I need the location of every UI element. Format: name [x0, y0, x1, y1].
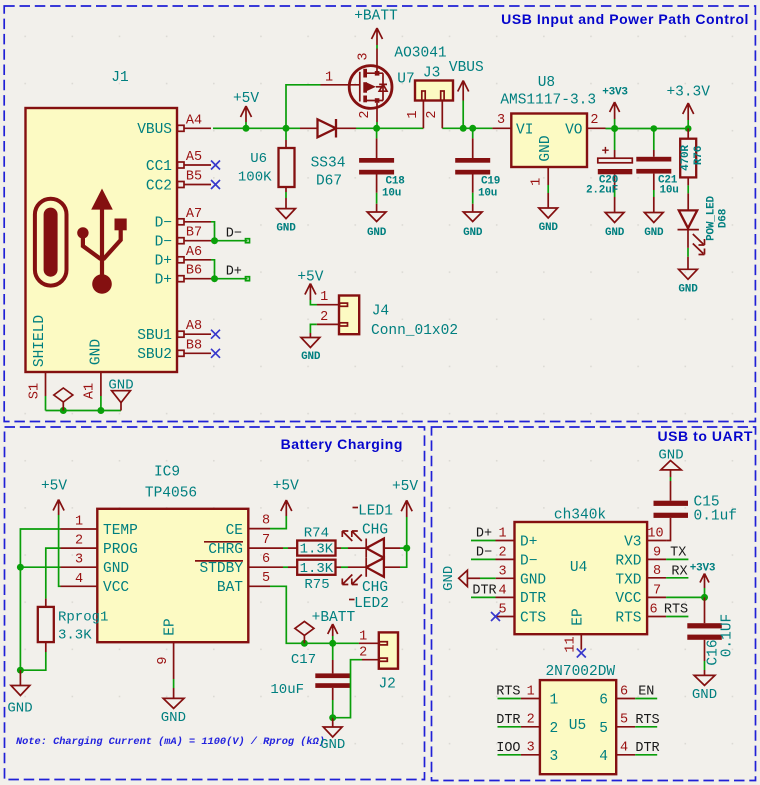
J1 pin A8 (SBU1): [178, 319, 212, 337]
svg-text:TEMP: TEMP: [103, 523, 138, 539]
sheet border: USB Input and Power Path Control: [4, 6, 755, 422]
IC9 pin 6 STDBY: [248, 552, 283, 567]
svg-text:9: 9: [653, 545, 661, 560]
svg-text:R74: R74: [304, 526, 329, 542]
svg-text:4: 4: [599, 749, 608, 765]
svg-text:10uF: 10uF: [270, 682, 304, 698]
svg-text:B7: B7: [186, 226, 202, 241]
svg-text:2: 2: [498, 545, 506, 560]
svg-text:2: 2: [550, 721, 559, 737]
no-connect X on SBU2: [211, 349, 220, 358]
IC9 pin 2 PROG: [61, 534, 98, 549]
svg-text:0.1UF: 0.1UF: [720, 614, 736, 658]
ground under J4: [301, 333, 321, 363]
svg-text:6: 6: [599, 693, 608, 709]
svg-text:BAT: BAT: [217, 580, 243, 596]
svg-text:1: 1: [320, 290, 328, 305]
svg-text:5: 5: [262, 571, 270, 586]
svg-text:2: 2: [590, 113, 598, 128]
IC9 pin 4 VCC: [61, 572, 98, 587]
connector J1 (USB-C): [26, 70, 178, 372]
LED LED2: [342, 558, 400, 585]
junction VBUS arrow: [460, 125, 467, 132]
svg-text:+BATT: +BATT: [312, 610, 356, 626]
transistor U7 AO3041 (P-MOSFET): [321, 46, 447, 129]
svg-text:S1: S1: [28, 383, 43, 399]
wire 3V3 rail: [606, 128, 689, 130]
ground under EP: [161, 698, 186, 726]
svg-text:SS34: SS34: [311, 156, 346, 172]
svg-text:VCC: VCC: [615, 591, 641, 607]
svg-text:A1: A1: [83, 383, 98, 399]
svg-text:GND: GND: [320, 737, 345, 753]
IC9 pin 1 TEMP: [61, 515, 98, 530]
ground under C18: [367, 212, 387, 239]
junction diamond: [301, 640, 308, 647]
wire pin7 to R74: [283, 547, 288, 549]
svg-text:LED1: LED1: [358, 504, 393, 520]
junction R76: [685, 125, 692, 132]
svg-text:DTR: DTR: [520, 591, 546, 607]
wire PROG drop: [46, 548, 61, 599]
svg-text:A4: A4: [186, 114, 202, 129]
svg-text:GND: GND: [89, 339, 105, 365]
svg-text:D−: D−: [155, 216, 172, 232]
wire TEMP to left rail: [20, 529, 60, 670]
IC9 pin 3 GND: [61, 553, 98, 568]
svg-text:6: 6: [649, 602, 657, 617]
power +5V left: [41, 479, 67, 516]
svg-text:GND: GND: [539, 222, 559, 234]
svg-text:TXD: TXD: [615, 572, 641, 588]
svg-text:11: 11: [564, 636, 579, 652]
svg-text:2: 2: [425, 110, 440, 118]
ground left rail: [7, 670, 32, 716]
svg-text:SBU2: SBU2: [137, 347, 172, 363]
wire LED common to +5V: [400, 517, 407, 567]
ground under C17: [320, 718, 345, 753]
wire J4 pin1: [310, 300, 317, 305]
capacitor C16: [687, 597, 735, 675]
svg-text:+5V: +5V: [392, 479, 418, 495]
wire pin6 to R75: [283, 566, 288, 568]
svg-text:1: 1: [406, 110, 421, 118]
junction Q drain rail: [373, 125, 380, 132]
capacitor C18: [359, 128, 405, 212]
wire BAT run: [270, 586, 359, 643]
no-connect X on CC1: [211, 161, 220, 170]
svg-text:U8: U8: [538, 75, 555, 91]
wire VBUS rail: [213, 127, 492, 129]
wire gate riser: [286, 85, 321, 129]
svg-text:5: 5: [620, 713, 628, 728]
svg-text:GND: GND: [367, 227, 387, 239]
svg-text:3: 3: [527, 741, 535, 756]
svg-text:4: 4: [75, 572, 83, 587]
connector J3: [406, 66, 453, 129]
sheet border: Battery Charging: [5, 427, 425, 780]
svg-text:TP4056: TP4056: [145, 486, 197, 502]
junction VCC C16: [701, 594, 708, 601]
svg-text:J3: J3: [423, 66, 440, 82]
svg-text:A6: A6: [186, 245, 202, 260]
svg-text:D+: D+: [520, 534, 537, 550]
svg-text:100K: 100K: [238, 170, 272, 186]
svg-text:1: 1: [75, 515, 83, 530]
svg-text:RTS: RTS: [615, 610, 641, 626]
svg-text:R75: R75: [304, 577, 329, 593]
U5 pin 6 / EN: [616, 684, 657, 699]
no-connect X on CC2: [211, 180, 220, 189]
svg-text:1: 1: [498, 526, 506, 541]
power +5V at J4: [297, 270, 323, 301]
svg-text:1: 1: [325, 71, 333, 86]
svg-text:3: 3: [497, 113, 505, 128]
svg-text:6: 6: [262, 552, 270, 567]
J1 pin A7 (D-): [178, 207, 212, 225]
svg-text:2: 2: [358, 110, 373, 118]
svg-text:J4: J4: [372, 304, 389, 320]
svg-text:VI: VI: [516, 122, 533, 138]
svg-text:SBU1: SBU1: [137, 328, 172, 344]
junction bottom left: [17, 667, 24, 674]
svg-text:C17: C17: [291, 652, 316, 668]
no-connect X on SBU1: [211, 330, 220, 339]
svg-text:TX: TX: [670, 546, 686, 561]
J1 pin A4 (VBUS): [178, 114, 212, 132]
svg-text:VBUS: VBUS: [137, 122, 172, 138]
svg-text:9: 9: [156, 656, 171, 664]
svg-text:EP: EP: [163, 618, 179, 635]
resistor R76: [680, 129, 705, 211]
J1 USB logo glyph: [35, 189, 127, 294]
power +3V3: [602, 87, 628, 129]
svg-text:2: 2: [527, 713, 535, 728]
U4 pin 2 D-: [471, 545, 515, 560]
svg-text:+3.3V: +3.3V: [666, 85, 710, 101]
svg-text:CHG: CHG: [362, 580, 388, 596]
capacitor C19: [455, 128, 500, 212]
svg-text:RXD: RXD: [615, 553, 641, 569]
ground under C21: [644, 213, 664, 240]
svg-text:CE: CE: [226, 523, 243, 539]
svg-text:470R: 470R: [680, 145, 692, 171]
J1 pin B7 (D-): [178, 226, 212, 244]
svg-text:1: 1: [527, 684, 535, 699]
svg-text:GND: GND: [301, 351, 321, 363]
svg-text:CC1: CC1: [146, 159, 172, 175]
svg-text:USB to UART: USB to UART: [658, 428, 754, 444]
svg-text:+5V: +5V: [233, 91, 259, 107]
svg-text:RTS: RTS: [664, 603, 688, 618]
connector J2: [359, 629, 398, 692]
IC U5 2N7002DW: [540, 664, 616, 774]
ground under C20: [605, 213, 625, 240]
J1 pin B8 (SBU2): [178, 338, 212, 356]
wire J4 pin2 to gnd: [310, 324, 316, 333]
svg-text:GND: GND: [520, 572, 546, 588]
svg-text:7: 7: [262, 533, 270, 548]
junction +3V3: [611, 125, 618, 132]
power +3.3V: [666, 85, 710, 129]
svg-text:RTS: RTS: [496, 685, 520, 700]
svg-text:PROG: PROG: [103, 542, 138, 558]
power +BATT at battery: [312, 610, 356, 643]
J1 pin A6 (D+): [178, 245, 212, 263]
svg-text:GND: GND: [605, 227, 625, 239]
svg-text:5: 5: [599, 721, 608, 737]
svg-text:D68: D68: [718, 208, 730, 228]
svg-text:EN: EN: [638, 685, 654, 700]
svg-text:2: 2: [320, 310, 328, 325]
sheet border: USB to UART: [432, 427, 756, 781]
svg-text:+5V: +5V: [273, 479, 299, 495]
junction C17 bottom: [329, 714, 336, 721]
power VBUS: [449, 60, 484, 128]
svg-text:10u: 10u: [382, 187, 401, 199]
svg-text:+5V: +5V: [297, 270, 323, 286]
svg-text:GND: GND: [108, 377, 133, 393]
svg-text:GND: GND: [692, 687, 717, 703]
J1 pin names right column: [137, 122, 172, 363]
svg-text:8: 8: [653, 564, 661, 579]
svg-text:7: 7: [653, 583, 661, 598]
svg-text:10u: 10u: [478, 187, 497, 199]
IC9 pin 8 CE: [248, 514, 270, 529]
svg-text:2N7002DW: 2N7002DW: [545, 664, 615, 680]
U4 pin 5 CTS: [496, 602, 515, 617]
svg-text:2.2uF: 2.2uF: [586, 184, 618, 196]
U4 pin 3 GND: [468, 564, 515, 579]
svg-text:GND: GND: [7, 701, 32, 717]
svg-text:6: 6: [620, 684, 628, 699]
label LED2: [349, 596, 389, 612]
junction shield rail: [60, 407, 67, 414]
svg-text:4: 4: [620, 741, 628, 756]
svg-text:GND: GND: [538, 135, 554, 161]
svg-text:C19: C19: [481, 176, 500, 188]
svg-text:GND: GND: [463, 227, 483, 239]
J1 pin B5 (CC2): [178, 170, 212, 188]
svg-text:3: 3: [498, 564, 506, 579]
svg-text:GND: GND: [441, 566, 457, 591]
svg-text:CC2: CC2: [146, 178, 172, 194]
net-tie diamond on shield: [54, 388, 73, 411]
svg-text:8: 8: [262, 514, 270, 529]
svg-text:1.3K: 1.3K: [300, 561, 334, 577]
svg-text:V3: V3: [624, 534, 641, 550]
svg-text:J2: J2: [378, 677, 395, 693]
svg-text:D−: D−: [476, 546, 492, 561]
svg-text:D+: D+: [155, 254, 172, 270]
svg-text:U6: U6: [250, 151, 267, 167]
svg-text:U5: U5: [569, 718, 586, 734]
connector J4: [317, 290, 458, 339]
U4 pin 10 V3: [647, 526, 666, 541]
capacitor C15: [654, 495, 738, 541]
power +5V mid: [273, 479, 299, 517]
ground above C15: [658, 448, 683, 501]
svg-text:B8: B8: [186, 338, 202, 353]
svg-text:Conn_01x02: Conn_01x02: [371, 323, 458, 339]
U5 pin 3 / IO0: [496, 741, 540, 756]
svg-text:GND: GND: [644, 227, 664, 239]
no-connect X on EP: [577, 649, 586, 658]
wire R75 to LED2: [341, 566, 348, 568]
IC9 pin 9 EP: [156, 642, 174, 698]
LED LED1: [342, 531, 400, 558]
svg-text:AO3041: AO3041: [394, 46, 446, 62]
svg-text:DTR: DTR: [472, 584, 496, 599]
svg-text:DTR: DTR: [635, 741, 659, 756]
junction U6 rail: [283, 125, 290, 132]
wire shield rail: [46, 410, 122, 412]
IC9 pin 5 BAT: [248, 571, 270, 587]
J1 pin A1 (GND): [83, 372, 101, 411]
svg-text:STDBY: STDBY: [199, 561, 243, 577]
svg-text:4: 4: [498, 583, 506, 598]
svg-text:RTS: RTS: [635, 713, 659, 728]
svg-text:RX: RX: [671, 565, 687, 580]
svg-text:3: 3: [550, 749, 559, 765]
svg-text:CHRG: CHRG: [208, 542, 243, 558]
diode D67 SS34: [300, 119, 356, 190]
svg-text:GND: GND: [103, 561, 129, 577]
junction LED1 +5V: [403, 545, 410, 552]
svg-text:VBUS: VBUS: [449, 60, 484, 76]
svg-text:IOO: IOO: [496, 741, 520, 756]
svg-text:D+: D+: [226, 265, 242, 280]
svg-text:A5: A5: [186, 150, 202, 165]
U5 pin 4 / DTR: [616, 741, 659, 756]
ground under C19: [463, 212, 483, 239]
svg-text:+5V: +5V: [41, 479, 67, 495]
svg-text:10: 10: [647, 526, 663, 541]
U5 pin 5 / RTS: [616, 713, 659, 728]
svg-text:0.1uf: 0.1uf: [694, 508, 738, 524]
svg-text:+: +: [602, 143, 610, 158]
capacitor C17: [270, 643, 350, 717]
J1 pin S1 (SHIELD): [28, 372, 46, 411]
J1 pin A5 (CC1): [178, 150, 212, 168]
junction D-: [211, 237, 218, 244]
svg-text:EP: EP: [571, 608, 587, 625]
svg-text:2: 2: [75, 534, 83, 549]
no-connect X on CTS: [491, 612, 500, 621]
U4 pin 7 VCC: [647, 583, 704, 598]
wire GND pin rail: [20, 566, 60, 568]
svg-text:Battery Charging: Battery Charging: [281, 436, 403, 452]
wire +5V to VCC: [59, 515, 61, 586]
ground under U8: [539, 208, 559, 234]
junction D+: [211, 275, 218, 282]
svg-text:3: 3: [357, 52, 372, 60]
svg-text:C18: C18: [386, 176, 406, 188]
U4 pin 8 TXD / RX: [647, 564, 688, 579]
svg-text:3: 3: [75, 553, 83, 568]
svg-text:J1: J1: [111, 70, 128, 86]
svg-text:GND: GND: [161, 710, 186, 726]
svg-text:B5: B5: [186, 170, 202, 185]
svg-text:R76: R76: [693, 146, 705, 165]
svg-text:B6: B6: [186, 264, 202, 279]
wire D- net: [211, 222, 248, 241]
U4 pin 6 RTS: [647, 602, 688, 617]
label LED1: [353, 504, 393, 520]
U5 pin 2 / DTR: [496, 713, 540, 728]
svg-text:D+: D+: [476, 527, 492, 542]
junction left rail GND: [17, 564, 24, 571]
capacitor C21: [636, 129, 678, 213]
svg-text:DTR: DTR: [496, 713, 520, 728]
resistor R74: [288, 526, 341, 558]
power +3V3 at VCC: [690, 563, 716, 598]
svg-text:POW_LED: POW_LED: [706, 195, 718, 240]
svg-text:VCC: VCC: [103, 580, 129, 596]
svg-text:VO: VO: [565, 122, 582, 138]
capacitor C20 (polarized): [586, 129, 632, 213]
svg-text:5: 5: [498, 602, 506, 617]
U4 pin 11 EP: [564, 634, 582, 652]
svg-text:D67: D67: [316, 174, 342, 190]
power +5V right: [392, 479, 418, 517]
svg-text:Rprog1: Rprog1: [58, 610, 108, 626]
wire D+ net: [211, 260, 248, 279]
IC U4 ch340k: [515, 508, 648, 635]
resistor Rprog1: [38, 599, 109, 652]
svg-text:2: 2: [359, 646, 367, 661]
svg-text:D−: D−: [520, 553, 537, 569]
U4 pin 9 RXD / TX: [647, 545, 688, 560]
svg-text:1: 1: [530, 178, 545, 186]
U4 pin 1 D+: [471, 526, 515, 541]
LED D68 POW_LED: [678, 195, 730, 269]
svg-text:CTS: CTS: [520, 610, 546, 626]
J1 pin B6 (D+): [178, 264, 212, 282]
svg-text:U7: U7: [397, 72, 414, 88]
junction A1 rail: [97, 407, 104, 414]
U4 pin 4 DTR: [471, 583, 515, 598]
wire Rprog to rail: [20, 652, 45, 670]
IC9 TP4056: [97, 465, 248, 643]
junction +5V rail: [243, 125, 250, 132]
svg-text:+3V3: +3V3: [690, 563, 716, 575]
regulator U8 AMS1117-3.3: [492, 75, 605, 208]
svg-text:USB Input and Power Path Contr: USB Input and Power Path Control: [501, 11, 749, 27]
resistor U6: [238, 128, 295, 208]
wire R74 to LED1: [341, 547, 348, 549]
power +5V: [233, 91, 259, 128]
wire CE to +5V: [270, 516, 286, 529]
svg-text:CHG: CHG: [362, 522, 388, 538]
svg-text:+3V3: +3V3: [602, 87, 628, 99]
svg-text:1: 1: [359, 629, 367, 644]
svg-text:1: 1: [550, 693, 559, 709]
junction C21: [651, 125, 658, 132]
power +BATT: [354, 9, 398, 49]
svg-text:AMS1117-3.3: AMS1117-3.3: [500, 93, 596, 109]
net-tie diamond at BAT: [295, 621, 314, 643]
ground under C16: [692, 675, 717, 703]
junction C17/+BATT: [329, 640, 336, 647]
svg-text:A7: A7: [186, 207, 202, 222]
svg-text:GND: GND: [678, 284, 698, 296]
ground sideways at U4 pin3: [441, 566, 467, 591]
svg-text:D−: D−: [155, 235, 172, 251]
svg-text:GND: GND: [276, 223, 296, 235]
ground GND at J1: [108, 377, 133, 410]
svg-text:LED2: LED2: [354, 596, 389, 612]
